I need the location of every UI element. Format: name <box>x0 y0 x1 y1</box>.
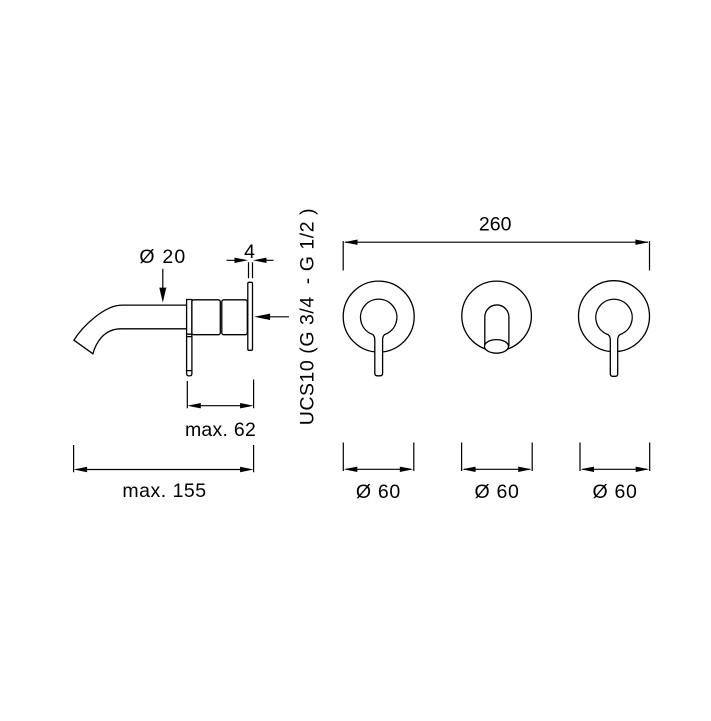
svg-text:Ø 60: Ø 60 <box>474 481 519 503</box>
mixer body section 2 <box>222 300 248 335</box>
wall plate <box>248 282 253 350</box>
svg-text:Ø 20: Ø 20 <box>139 246 186 268</box>
handle lollipop 3 <box>596 299 632 376</box>
dimension max. 62 <box>187 380 253 409</box>
svg-text:max. 62: max. 62 <box>185 419 256 441</box>
svg-text:UCS10 (G 3/4 - G 1/2 ): UCS10 (G 3/4 - G 1/2 ) <box>297 208 319 425</box>
escutcheon circle 3 <box>579 281 650 352</box>
dimension max. 155 <box>74 445 254 472</box>
svg-text:Ø 60: Ø 60 <box>592 481 637 503</box>
svg-text:260: 260 <box>479 214 512 236</box>
handle capsule 2 <box>485 305 509 346</box>
handle lever side view <box>187 300 192 376</box>
escutcheon circle 1 <box>343 281 414 352</box>
mixer body section 1 <box>192 300 220 335</box>
lever cap line <box>187 370 192 372</box>
dimension 260 <box>343 241 649 271</box>
handle end ellipse 2 <box>485 340 509 354</box>
dimension Ø20 leader <box>162 269 164 290</box>
dimension Ø 60 (right circle) <box>580 443 650 472</box>
handle lollipop 1 <box>360 299 396 376</box>
dimension 4 (plate thickness) <box>227 260 274 278</box>
svg-text:4: 4 <box>244 241 255 263</box>
lever joint line <box>187 334 192 336</box>
leader arrow to wall plate <box>268 316 289 318</box>
svg-text:Ø 60: Ø 60 <box>356 481 401 503</box>
escutcheon circle 2 <box>462 281 532 351</box>
svg-text:max. 155: max. 155 <box>122 480 206 502</box>
spout <box>74 305 192 354</box>
dimension Ø 60 (left circle) <box>343 443 414 472</box>
dimension Ø 60 (middle circle) <box>462 443 533 472</box>
